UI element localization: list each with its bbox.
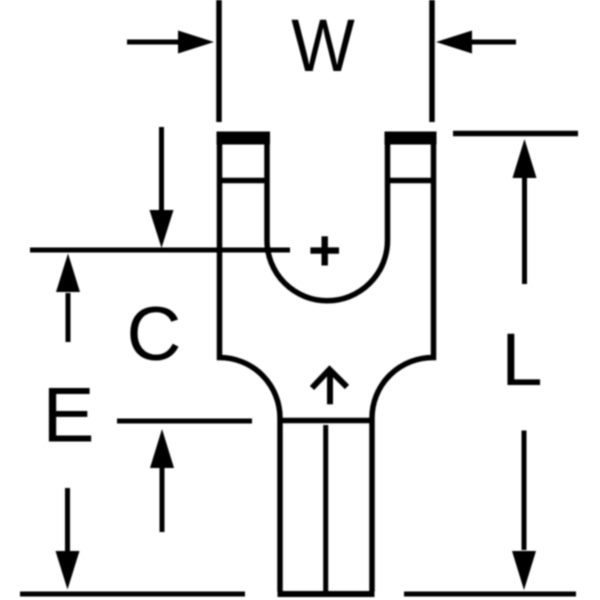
svg-text:W: W [291, 4, 355, 87]
svg-text:L: L [501, 318, 542, 401]
svg-text:E: E [42, 371, 94, 459]
svg-text:C: C [127, 292, 182, 377]
